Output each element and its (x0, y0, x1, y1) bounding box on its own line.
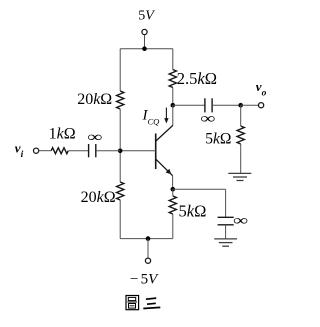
transistor Q1 emitter lead with arrow (156, 159, 173, 176)
wire collector resistor to node (172, 88, 174, 106)
wire left branch middle (119, 109, 121, 182)
wire load branch (240, 105, 242, 126)
svg-text:5kΩ: 5kΩ (205, 131, 231, 148)
caption character tu (figure) (126, 296, 139, 310)
capacitor input (infinite) (88, 144, 90, 157)
node base (118, 149, 123, 154)
node collector (171, 103, 176, 108)
svg-text:5V: 5V (141, 272, 160, 288)
terminal vi (34, 148, 39, 153)
wire RE to bottom rail (172, 214, 174, 239)
wire input cap to base node (96, 150, 120, 152)
node bottom rail junction (146, 236, 151, 241)
wire emitter to RE (172, 189, 174, 196)
supply terminal -5V (145, 258, 150, 263)
caption character san (three) (143, 298, 160, 308)
wire bottom rail (120, 238, 173, 240)
node emitter (171, 187, 176, 192)
wire collector to output cap (173, 104, 205, 106)
wire emitter vertical (172, 176, 174, 190)
svg-text:ICQ: ICQ (142, 108, 160, 127)
wire output cap to vo node (212, 104, 241, 106)
wire bypass vertical (225, 189, 227, 217)
wire -5V stem (147, 239, 149, 258)
capacitor output (infinite) (204, 98, 206, 112)
resistor 20k bottom (117, 182, 124, 200)
svg-text:vo: vo (256, 79, 267, 99)
transistor Q1 base bar (155, 134, 157, 170)
capacitor bypass (infinite) (218, 216, 234, 218)
svg-text:20kΩ: 20kΩ (81, 189, 116, 206)
wire left branch upper (119, 49, 121, 91)
node top rail junction (142, 46, 147, 51)
svg-text:vi: vi (15, 140, 24, 160)
wire vo node to terminal (241, 104, 259, 106)
wire base (120, 150, 156, 152)
wire load to ground (240, 144, 242, 173)
svg-text:5V: 5V (138, 9, 155, 24)
svg-text:1kΩ: 1kΩ (49, 125, 76, 142)
wire top rail (120, 48, 173, 50)
svg-text:5kΩ: 5kΩ (179, 201, 207, 220)
resistor 2.5k collector (169, 70, 176, 88)
terminal vo (259, 103, 264, 108)
ground bypass (214, 238, 237, 240)
wire emitter horizontal to bypass (173, 188, 226, 190)
ground load (228, 172, 251, 174)
wire right branch top (172, 49, 174, 70)
svg-text:−: − (130, 271, 138, 287)
svg-text:∞: ∞ (200, 110, 215, 126)
node vo (238, 103, 243, 108)
wire left branch lower (119, 200, 121, 239)
wire 5V stem (144, 35, 146, 49)
resistor 20k top (117, 91, 124, 109)
wire vi to resistor (39, 150, 52, 152)
svg-text:20kΩ: 20kΩ (77, 91, 112, 108)
svg-text:∞: ∞ (87, 129, 102, 145)
svg-text:∞: ∞ (233, 212, 248, 228)
supply terminal 5V (142, 29, 147, 34)
wire bypass cap to ground (225, 225, 227, 239)
wire collector vertical (172, 105, 174, 125)
resistor 5k load (237, 126, 244, 144)
transistor Q1 collector lead (156, 125, 173, 141)
arrow ICQ current direction (165, 108, 167, 120)
wire input resistor to cap (69, 150, 89, 152)
resistor 5k emitter (169, 196, 176, 214)
resistor 1k input (51, 148, 68, 154)
svg-text:2.5kΩ: 2.5kΩ (177, 69, 217, 88)
